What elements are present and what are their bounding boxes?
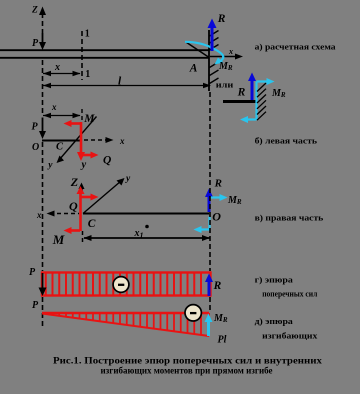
svg-text:O: O — [32, 142, 39, 153]
svg-text:y: y — [125, 174, 131, 184]
svg-text:x: x — [36, 210, 42, 220]
svg-text:в) правая часть: в) правая часть — [255, 214, 324, 223]
svg-text:R: R — [237, 87, 246, 99]
svg-text:y: y — [80, 159, 87, 170]
svg-text:г) эпюра: г) эпюра — [255, 275, 294, 284]
svg-text:Z: Z — [31, 6, 38, 16]
svg-text:C: C — [88, 218, 96, 230]
svg-text:1: 1 — [85, 69, 90, 80]
svg-text:1: 1 — [85, 29, 90, 40]
svg-text:Q: Q — [69, 199, 78, 213]
svg-text:а) расчетная схема: а) расчетная схема — [255, 43, 337, 52]
svg-text:x: x — [228, 47, 233, 56]
svg-text:R: R — [214, 177, 222, 189]
svg-text:или: или — [216, 81, 234, 90]
svg-text:изгибающих: изгибающих — [262, 331, 318, 340]
svg-text:x: x — [119, 136, 125, 146]
svg-text:R: R — [213, 280, 222, 292]
svg-text:M: M — [52, 232, 65, 247]
svg-text:Рис.1. Построение эпюр попереч: Рис.1. Построение эпюр поперечных сил и … — [53, 357, 322, 367]
svg-text:P: P — [32, 38, 39, 49]
svg-text:поперечных сил: поперечных сил — [262, 289, 317, 298]
svg-text:x: x — [54, 62, 60, 73]
svg-text:y: y — [47, 161, 53, 171]
svg-text:Q: Q — [103, 154, 111, 166]
svg-text:д) эпюра: д) эпюра — [255, 317, 294, 326]
svg-text:P: P — [32, 121, 39, 132]
svg-text:R: R — [217, 13, 226, 25]
svg-text:M: M — [83, 113, 95, 125]
svg-text:C: C — [56, 142, 64, 153]
svg-text:x: x — [51, 102, 57, 112]
svg-text:б) левая часть: б) левая часть — [255, 137, 318, 146]
svg-text:P: P — [29, 267, 36, 278]
svg-text:P: P — [32, 300, 39, 311]
svg-text:изгибающих моментов при прямом: изгибающих моментов при прямом изгибе — [101, 366, 273, 377]
svg-text:Pl: Pl — [218, 335, 227, 346]
svg-text:O: O — [212, 210, 221, 224]
svg-text:A: A — [189, 63, 198, 75]
svg-text:Z: Z — [70, 175, 79, 189]
